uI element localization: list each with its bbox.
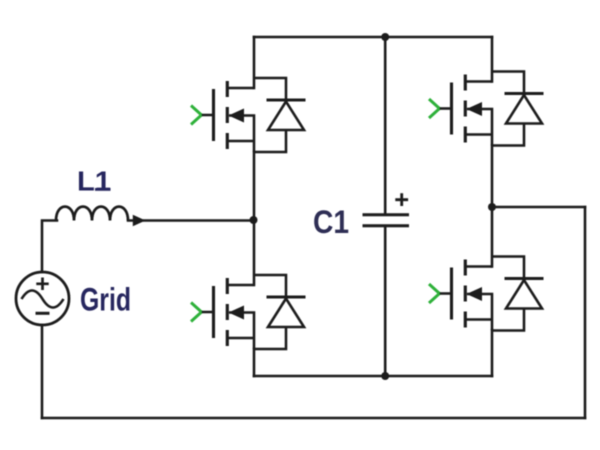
svg-text:L1: L1	[77, 166, 111, 197]
node: top bus / capacitor junction	[381, 33, 389, 41]
capacitor polarity +	[395, 193, 408, 206]
MOSFET Q2 with diode D2 (top right)	[429, 72, 544, 146]
wire: capacitor bottom branch	[384, 226, 387, 376]
svg-text:Grid: Grid	[80, 282, 131, 318]
wire: Grid source top to inductor	[42, 221, 57, 273]
wire: top bus to Q2 drain	[491, 37, 494, 82]
wire: outer right rail down	[584, 207, 587, 418]
wire: Q2 source to right midpoint node	[491, 146, 494, 208]
wire: left midpoint to Q3 drain	[253, 220, 256, 285]
wire: Q4 source to bottom bus	[491, 330, 494, 376]
wire: right midpoint to Q4 drain	[491, 207, 494, 267]
wire: inductor to left midpoint	[128, 219, 253, 222]
wire: bottom return rail	[42, 417, 585, 420]
wire: right midpoint to outer right rail	[492, 206, 585, 209]
inductor L1	[56, 207, 128, 221]
node: left leg midpoint (junction dot)	[250, 216, 258, 224]
wire: top DC bus	[254, 36, 492, 39]
capacitor C1	[363, 215, 410, 226]
MOSFET Q3 with diode D3 (bottom left)	[191, 275, 306, 349]
wire: bottom DC bus	[254, 375, 492, 378]
wire: top bus to Q1 drain	[253, 37, 256, 88]
wire: bottom rail up to Grid source	[41, 325, 44, 418]
wire: Q3 source to bottom bus	[253, 349, 256, 376]
svg-text:C1: C1	[313, 204, 349, 240]
wire: Q1 source to left midpoint node	[253, 152, 256, 220]
MOSFET Q1 with diode D1 (top left)	[191, 78, 306, 152]
node: right leg midpoint (junction dot)	[488, 203, 496, 211]
current arrow on wire	[133, 215, 146, 226]
MOSFET Q4 with diode D4 (bottom right)	[429, 257, 544, 331]
AC voltage source Grid	[16, 272, 69, 325]
node: bottom bus / capacitor junction	[381, 372, 389, 380]
wire: capacitor top branch	[384, 37, 387, 214]
